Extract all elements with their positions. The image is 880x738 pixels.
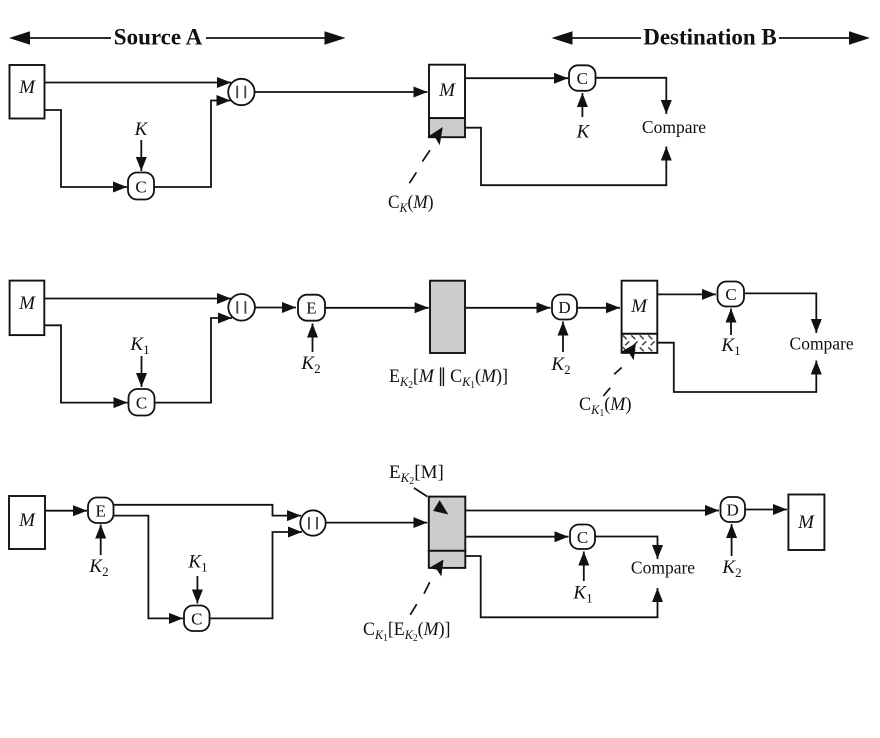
function C dest row b [718,282,745,307]
svg-text:C: C [577,528,588,547]
function D row c [721,497,746,522]
wire C to compare row b [744,293,816,333]
wire M' to C row a dest [465,77,568,79]
block MAC lower (shaded) row c [429,551,466,568]
svg-text:Compare: Compare [790,334,854,354]
callout line EK2[M] row c [414,488,428,497]
span arrow Destination B [552,25,871,50]
block M source row a [10,65,45,119]
svg-text:E: E [306,299,316,318]
block ciphertext upper (shaded) row c [429,497,466,551]
svg-text:C: C [135,178,146,197]
arrow K2 to E row c [100,525,102,556]
wire M to concat (top) row a [45,82,232,84]
svg-text:C: C [191,610,202,629]
block MAC appended (shaded) row a [429,118,465,137]
arrow K1 to C dest row c [583,552,585,582]
span arrow Source A [9,25,346,50]
svg-text:Destination B: Destination B [643,25,777,50]
wire M to C row a [45,110,128,187]
svg-text:CK(M): CK(M) [388,192,434,215]
arrow K2 to E row b [312,324,314,353]
block M source row b [10,281,45,336]
wire E to C row c [114,516,184,619]
function C source row a [128,173,154,200]
arrow K to C dest row a [581,93,583,117]
wire M to C row b [44,325,127,402]
wire E to concat (top) row c [114,505,302,516]
concat node || row a [228,79,254,105]
callout dashes row c [410,582,430,615]
block M received row a [429,65,465,118]
arrow K1 to C row c [196,576,198,604]
wire M to concat (top) row b [44,298,231,300]
block ciphertext (shaded) row b [430,281,465,353]
callout arrowhead into MAC row b [621,343,636,360]
svg-text:E: E [96,502,106,521]
callout dashes row b [603,368,621,396]
wire C to concat row a [154,101,231,188]
svg-text:M: M [18,510,36,531]
function C dest row a [569,65,596,91]
block M output row c [788,495,824,551]
function C source row c [184,606,210,632]
svg-text:D: D [558,298,570,317]
wire C to concat row c [210,532,303,618]
wire block to C dest row c [465,536,568,538]
svg-text:Source A: Source A [114,25,203,50]
wire block to D row c [465,510,719,512]
svg-text:M: M [438,80,456,101]
function C dest row c [570,525,595,550]
wire MAC to compare row c [465,556,658,617]
svg-text:Compare: Compare [631,558,695,578]
wire concat to E row b [255,307,296,309]
svg-text:C: C [136,394,147,413]
wire concat to cipher block row c [326,522,428,524]
wire concat to M' row a [255,91,428,93]
svg-text:K: K [576,122,591,143]
svg-text:D: D [727,501,739,520]
wire MAC to compare row a [465,128,666,186]
wire E to cipher block row b [325,307,429,309]
svg-text:Compare: Compare [642,117,706,137]
wire D to M row b [577,307,620,309]
block MAC appended (hatched) row b [622,334,658,353]
wire MAC to compare row b [657,343,816,392]
svg-text:M: M [630,296,648,317]
arrow K2 to D row b [562,322,564,353]
wire C to concat row b [155,318,233,403]
callout arrowhead into MAC row c [429,560,444,577]
block M dest row b [622,281,658,334]
svg-text:C: C [577,69,588,88]
wire cipher block to D row b [465,307,551,309]
callout dashes row a [409,150,430,183]
function E row b [298,295,325,321]
callout arrowhead into MAC row a [427,127,443,145]
svg-text:M: M [18,293,36,314]
function D row b [552,295,577,320]
wire C to compare row a [596,78,667,114]
svg-text:M: M [797,512,815,533]
svg-text:M: M [18,77,36,98]
svg-text:C: C [725,285,736,304]
wire M to C dest row b [657,293,716,295]
svg-text:K: K [134,119,149,140]
arrow K1 to C row b [141,356,143,387]
function E row c [88,498,114,524]
concat node || row b [228,294,255,321]
arrow K to C row a [140,140,142,171]
block M source row c [9,496,45,549]
concat node || row c [300,510,325,535]
arrow K1 to C dest row b [730,309,732,336]
wire C to compare row c [595,537,658,560]
callout arrowhead inside block row c [433,500,448,514]
wire M to E row c [45,510,87,512]
function C source row b [129,389,155,416]
arrow K2 to D row c [731,524,733,556]
wire D to M row c [745,509,787,511]
